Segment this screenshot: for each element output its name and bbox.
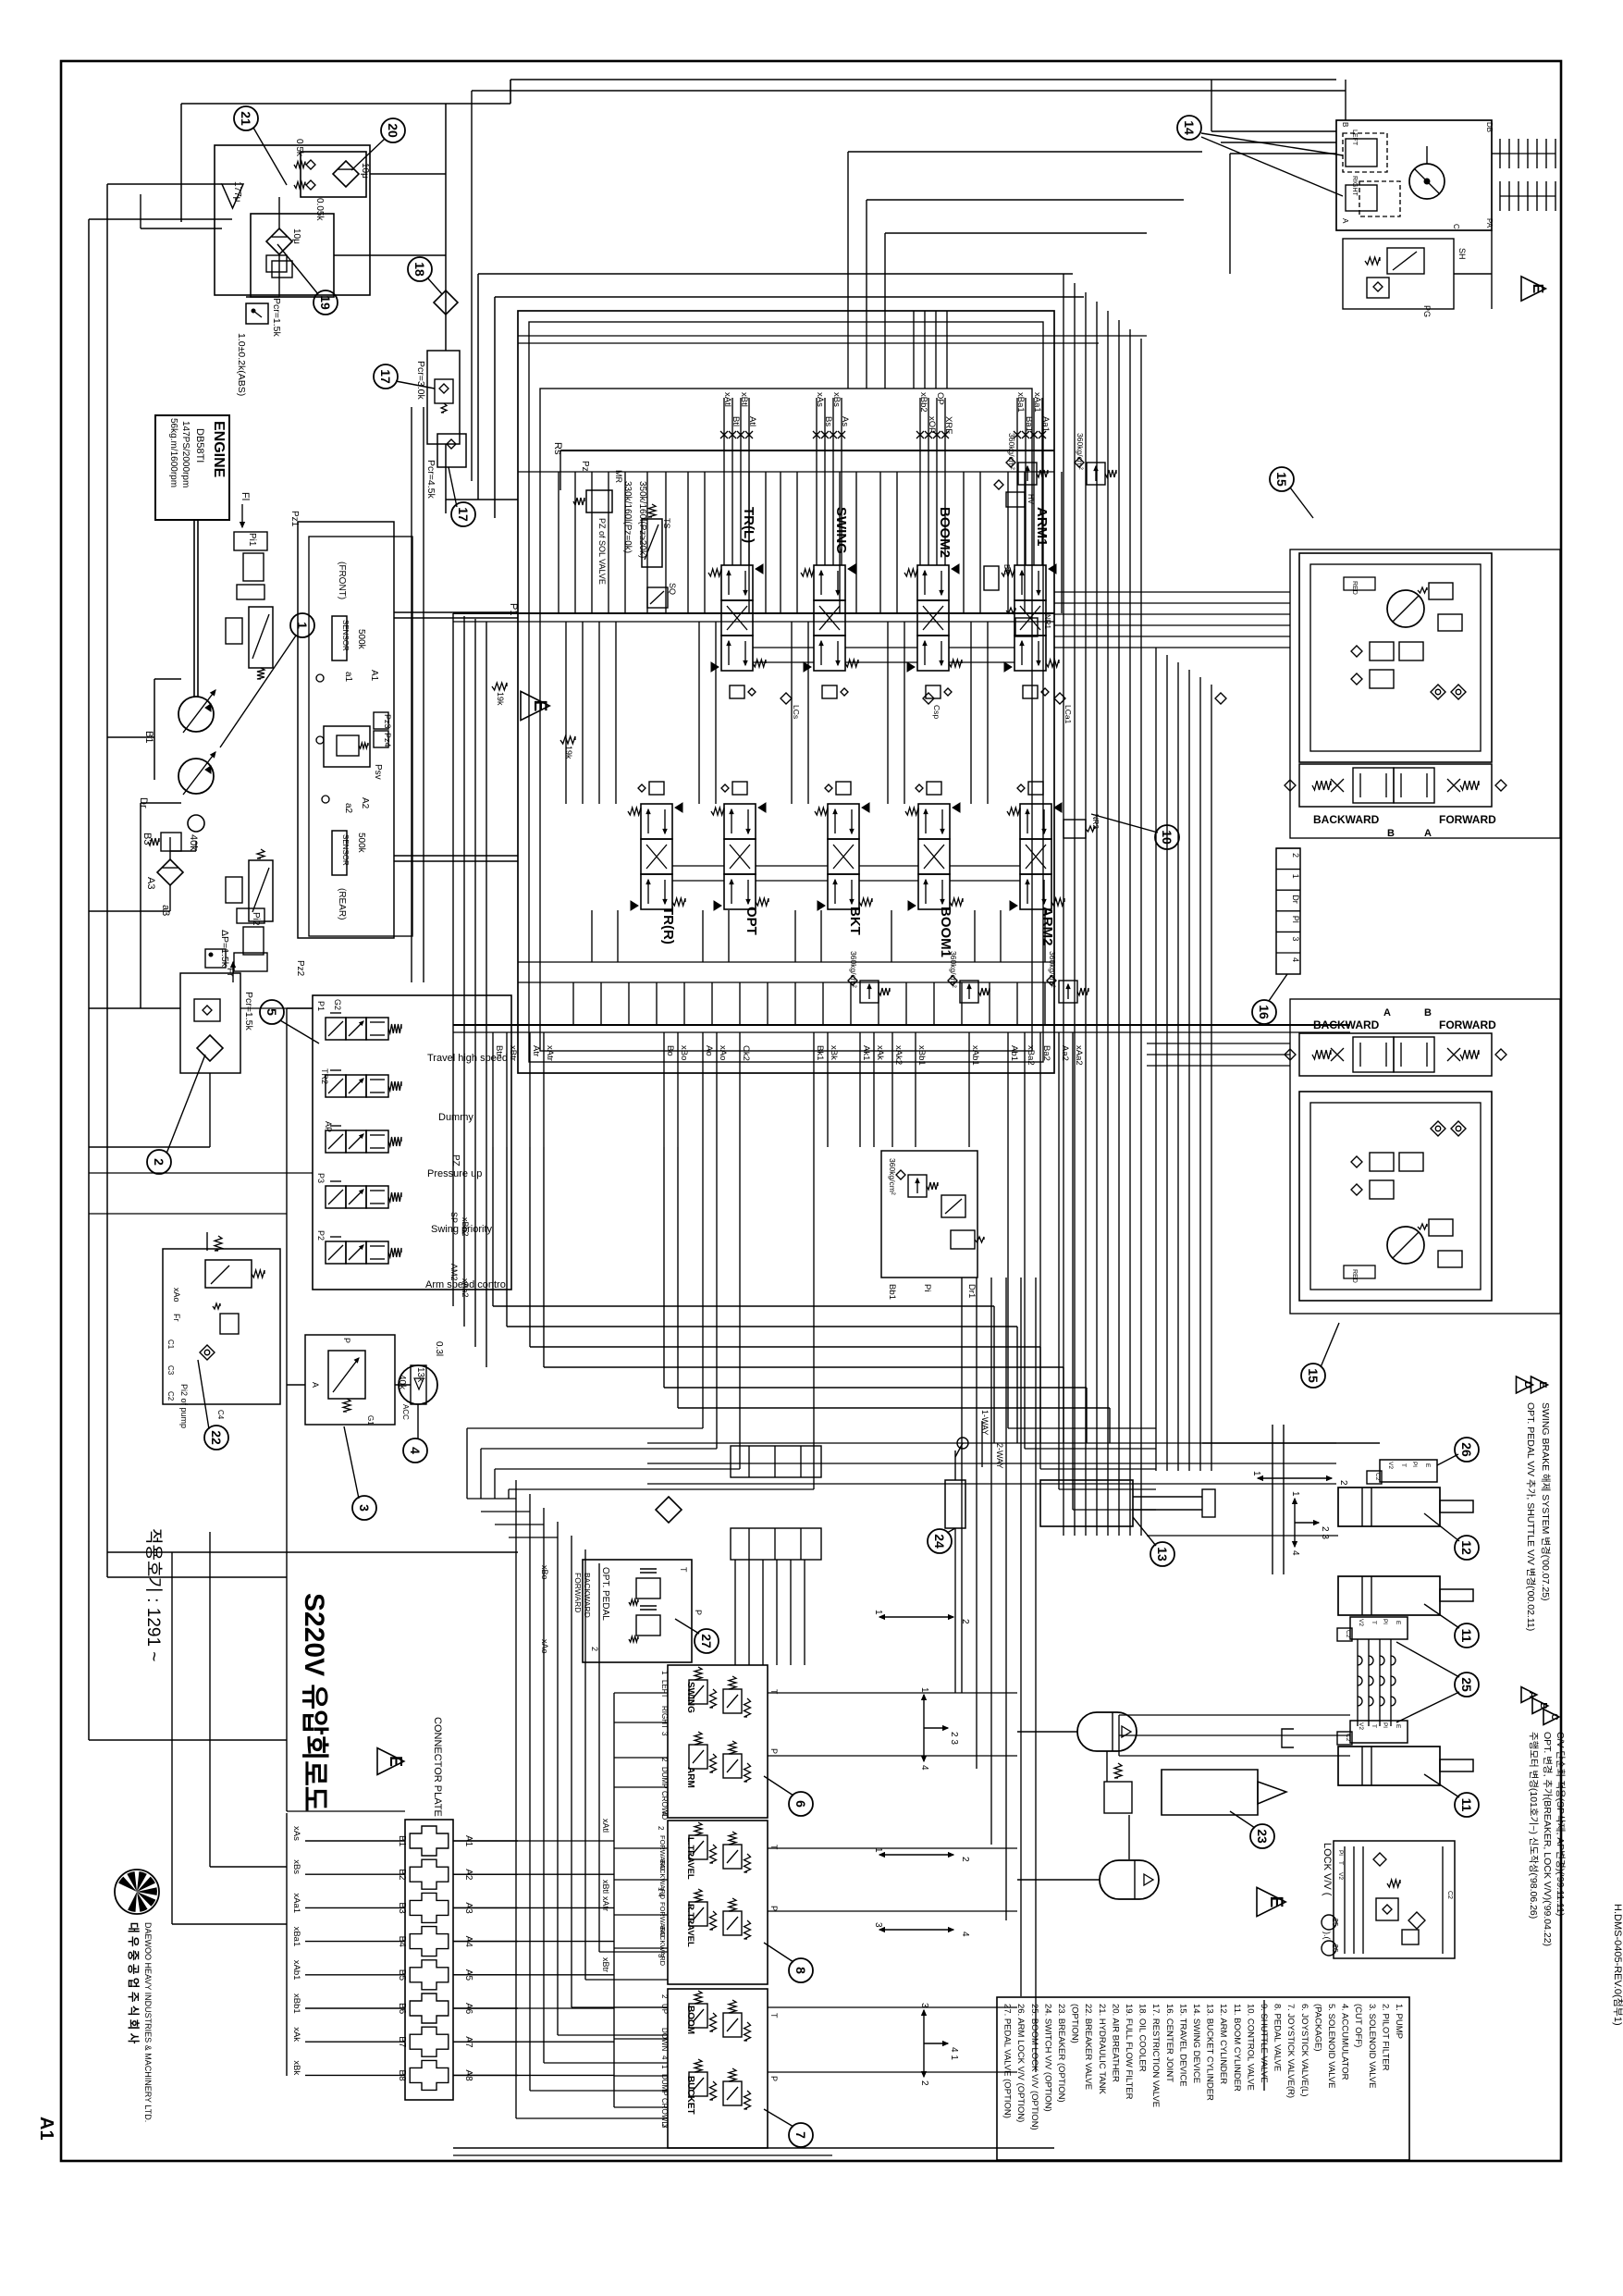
svg-text:UP: UP — [660, 2004, 669, 2014]
svg-text:V2: V2 — [1387, 1462, 1394, 1469]
svg-text:V2: V2 — [1358, 1619, 1364, 1626]
svg-text:T: T — [1337, 1861, 1344, 1865]
svg-text:xAb1: xAb1 — [970, 1045, 980, 1066]
svg-text:Ba1: Ba1 — [1024, 416, 1034, 432]
svg-text:DB58TI: DB58TI — [194, 428, 205, 463]
svg-text:2: 2 — [1291, 853, 1300, 858]
svg-text:C1: C1 — [166, 1339, 175, 1350]
svg-text:A: A — [1383, 1007, 1391, 1018]
svg-text:15: 15 — [1274, 472, 1289, 487]
svg-text:25: 25 — [1459, 1677, 1474, 1692]
svg-text:a2: a2 — [343, 803, 353, 814]
svg-text:2: 2 — [960, 1857, 970, 1862]
svg-text:TR2: TR2 — [320, 1068, 329, 1084]
svg-text:xAtl: xAtl — [601, 1819, 610, 1833]
svg-text:DAEWOO HEAVY INDUSTRIES & MACH: DAEWOO HEAVY INDUSTRIES & MACHINERY LTD. — [143, 1922, 153, 2122]
svg-text:xAtr: xAtr — [601, 1896, 610, 1911]
svg-text:xAtl: xAtl — [722, 392, 732, 407]
svg-text:대 우 중 공 업 주 식 회 사: 대 우 중 공 업 주 식 회 사 — [127, 1922, 141, 2044]
svg-text:xBtl: xBtl — [601, 1880, 610, 1894]
svg-text:S220V 유압회로도: S220V 유압회로도 — [299, 1593, 329, 1811]
svg-text:a3: a3 — [160, 905, 171, 916]
svg-text:Pl: Pl — [1382, 1619, 1388, 1624]
svg-text:4: 4 — [1291, 957, 1300, 962]
svg-text:P1: P1 — [508, 603, 519, 615]
svg-text:17: 17 — [378, 369, 393, 384]
svg-text:26: 26 — [1331, 1944, 1339, 1953]
svg-text:).(: ).( — [1322, 1932, 1332, 1940]
svg-text:Psv: Psv — [373, 764, 383, 780]
svg-text:xBb2: xBb2 — [918, 392, 928, 413]
svg-text:BACKWARD: BACKWARD — [1313, 1018, 1380, 1031]
svg-text:B: B — [1424, 1007, 1432, 1018]
svg-text:LEFT: LEFT — [660, 1680, 669, 1698]
svg-text:SENSOR: SENSOR — [341, 620, 350, 651]
svg-text:Bb1: Bb1 — [887, 1284, 897, 1300]
svg-text:360kg/cm²: 360kg/cm² — [888, 1158, 897, 1195]
svg-text:G1: G1 — [366, 1415, 375, 1426]
svg-text:C2: C2 — [1446, 1891, 1453, 1899]
svg-text:1: 1 — [660, 1671, 669, 1675]
svg-text:40k: 40k — [397, 1375, 407, 1390]
svg-text:6. JOYSTICK VALVE(L): 6. JOYSTICK VALVE(L) — [1299, 2004, 1309, 2096]
svg-text:Ab1: Ab1 — [1009, 1045, 1019, 1061]
svg-text:E: E — [1530, 284, 1545, 294]
svg-text:26. ARM LOCK V/V (OPTION): 26. ARM LOCK V/V (OPTION) — [1015, 2004, 1026, 2122]
svg-text:16: 16 — [1257, 1005, 1272, 1019]
svg-text:V2: V2 — [1358, 1722, 1364, 1730]
svg-text:14: 14 — [1182, 120, 1197, 135]
svg-text:SENSOR: SENSOR — [341, 834, 350, 866]
svg-text:21: 21 — [239, 111, 253, 126]
svg-text:xAk: xAk — [291, 2027, 301, 2042]
svg-text:1: 1 — [873, 1847, 883, 1853]
svg-text:8: 8 — [793, 1967, 808, 1974]
svg-text:xBtl: xBtl — [739, 392, 749, 407]
svg-text:4 1: 4 1 — [949, 2047, 959, 2060]
svg-text:20. AIR BREATHER: 20. AIR BREATHER — [1110, 2004, 1120, 2082]
svg-text:Btl: Btl — [731, 416, 741, 426]
svg-text:3: 3 — [1291, 936, 1300, 941]
svg-text:xAo: xAo — [540, 1639, 549, 1654]
svg-text:SH: SH — [1457, 248, 1467, 260]
svg-text:PZ of SOL VALVE: PZ of SOL VALVE — [597, 518, 607, 585]
svg-text:147PS/2000rpm: 147PS/2000rpm — [180, 421, 191, 488]
svg-text:22. BREAKER VALVE: 22. BREAKER VALVE — [1083, 2004, 1093, 2090]
svg-text:40k: 40k — [188, 834, 199, 851]
svg-text:ΔP=1.5k: ΔP=1.5k — [219, 930, 230, 968]
svg-text:B: B — [1341, 122, 1349, 127]
svg-text:A3: A3 — [145, 877, 156, 889]
svg-text:PZ: PZ — [450, 1154, 461, 1167]
svg-text:360kg/cm²: 360kg/cm² — [949, 951, 958, 988]
svg-text:DB: DB — [1485, 122, 1494, 132]
svg-text:2: 2 — [660, 1994, 669, 1999]
svg-text:1: 1 — [657, 1887, 665, 1892]
svg-text:MR: MR — [614, 470, 623, 483]
svg-text:C: C — [1452, 224, 1460, 229]
svg-text:1: 1 — [873, 1610, 883, 1615]
svg-text:16. CENTER JOINT: 16. CENTER JOINT — [1164, 2004, 1174, 2082]
svg-text:26: 26 — [1459, 1442, 1474, 1457]
svg-text:7. JOYSTICK VALVE(R): 7. JOYSTICK VALVE(R) — [1285, 2004, 1296, 2098]
svg-text:2: 2 — [960, 1619, 970, 1624]
svg-text:HV: HV — [1027, 494, 1035, 505]
svg-text:xAs: xAs — [291, 1826, 301, 1841]
svg-text:Pl: Pl — [1382, 1722, 1388, 1728]
svg-text:(CUT OFF): (CUT OFF) — [1353, 2004, 1363, 2047]
svg-text:25. BOOM LOCK V/V (OPTION): 25. BOOM LOCK V/V (OPTION) — [1029, 2004, 1039, 2130]
svg-text:4: 4 — [660, 2055, 669, 2060]
svg-text:G2: G2 — [333, 999, 342, 1010]
svg-text:BACKWARD: BACKWARD — [1313, 813, 1380, 826]
svg-text:xBk: xBk — [291, 2060, 301, 2075]
svg-text:Pz3: Pz3 — [383, 714, 392, 729]
svg-text:xAo: xAo — [718, 1045, 728, 1060]
svg-text:Pressure up: Pressure up — [427, 1168, 482, 1179]
svg-text:E: E — [530, 700, 549, 712]
svg-text:Atl: Atl — [747, 416, 757, 426]
svg-text:Csp: Csp — [932, 705, 941, 719]
svg-text:25: 25 — [1331, 1919, 1339, 1927]
svg-text:11. BOOM CYLINDER: 11. BOOM CYLINDER — [1232, 2004, 1242, 2092]
svg-text:177μ: 177μ — [232, 181, 242, 203]
svg-text:0.05k: 0.05k — [314, 198, 325, 221]
svg-text:11: 11 — [1459, 1629, 1474, 1643]
svg-text:C3: C3 — [166, 1365, 175, 1376]
svg-text:P1: P1 — [316, 1001, 326, 1011]
svg-text:360kg/cm²: 360kg/cm² — [1076, 433, 1085, 470]
svg-text:PA: PA — [1485, 218, 1494, 228]
svg-text:E: E — [1537, 1381, 1548, 1388]
svg-text:Bo: Bo — [665, 1045, 675, 1056]
svg-text:5: 5 — [264, 1008, 279, 1016]
svg-text:Pi2 of pump: Pi2 of pump — [179, 1384, 189, 1428]
svg-text:TS: TS — [662, 518, 671, 529]
svg-text:LEFT: LEFT — [1351, 130, 1358, 146]
svg-text:AP: AP — [324, 1121, 333, 1132]
svg-text:12: 12 — [1459, 1540, 1474, 1555]
svg-text:BACKWARD: BACKWARD — [658, 1926, 667, 1967]
svg-text:A: A — [1424, 828, 1432, 839]
svg-text:xBtr: xBtr — [508, 1045, 518, 1061]
svg-text:RED: RED — [1351, 581, 1358, 595]
svg-text:3: 3 — [660, 1732, 669, 1736]
svg-text:ACC: ACC — [401, 1404, 410, 1420]
svg-text:(OPTION): (OPTION) — [1070, 2004, 1080, 2043]
svg-text:xBk: xBk — [829, 1045, 839, 1060]
svg-text:14. SWING DEVICE: 14. SWING DEVICE — [1191, 2004, 1201, 2083]
svg-text:2: 2 — [660, 1758, 669, 1762]
svg-text:23. BREAKER (OPTION): 23. BREAKER (OPTION) — [1056, 2004, 1066, 2103]
svg-text:2-WAY: 2-WAY — [995, 1443, 1004, 1469]
svg-text:As: As — [840, 416, 850, 426]
svg-text:330k/160l(Pz=0k): 330k/160l(Pz=0k) — [622, 481, 633, 553]
svg-text:Ba2: Ba2 — [1041, 1045, 1051, 1061]
svg-text:3: 3 — [873, 1922, 883, 1928]
svg-text:SP: SP — [449, 1212, 459, 1223]
svg-text:xAa1: xAa1 — [291, 1893, 301, 1913]
svg-text:4: 4 — [960, 1932, 970, 1937]
svg-text:A2: A2 — [360, 797, 370, 809]
svg-text:23: 23 — [1255, 1829, 1270, 1844]
svg-text:4: 4 — [919, 1765, 929, 1771]
svg-text:LOCK V/V (: LOCK V/V ( — [1322, 1843, 1333, 1896]
svg-text:500k: 500k — [356, 629, 366, 650]
svg-text:RIGHT: RIGHT — [1351, 176, 1358, 197]
svg-text:Pcr=3.0k: Pcr=3.0k — [415, 361, 426, 400]
svg-text:A1: A1 — [36, 2117, 56, 2141]
svg-text:xAa2: xAa2 — [461, 1278, 470, 1298]
svg-text:E: E — [387, 1756, 405, 1767]
svg-text:6: 6 — [793, 1800, 808, 1808]
svg-text:Pz: Pz — [580, 461, 590, 472]
svg-text:AM2: AM2 — [449, 1264, 459, 1281]
svg-text:FORWARD: FORWARD — [1439, 813, 1496, 826]
svg-text:Pl: Pl — [1337, 1850, 1344, 1856]
svg-text:NR1: NR1 — [1043, 614, 1051, 630]
svg-text:1: 1 — [660, 2065, 669, 2069]
svg-text:E: E — [1395, 1724, 1401, 1729]
svg-text:3. SOLENOID VALVE: 3. SOLENOID VALVE — [1367, 2004, 1377, 2089]
svg-text:2: 2 — [1338, 1480, 1348, 1486]
svg-text:Dr: Dr — [1291, 895, 1300, 904]
svg-text:T: T — [769, 1845, 779, 1850]
svg-text:19. FULL FLOW FILTER: 19. FULL FLOW FILTER — [1124, 2004, 1134, 2100]
svg-text:Dr1: Dr1 — [966, 1284, 977, 1298]
svg-text:Aa2: Aa2 — [1060, 1045, 1070, 1061]
svg-text:BKT: BKT — [847, 907, 863, 935]
svg-text:DUMP: DUMP — [660, 2074, 669, 2096]
svg-text:T: T — [769, 1689, 779, 1695]
svg-text:5. SOLENOID VALVE: 5. SOLENOID VALVE — [1326, 2004, 1336, 2089]
svg-text:A: A — [311, 1382, 320, 1388]
svg-text:xBb2: xBb2 — [461, 1217, 470, 1237]
svg-text:27. PEDAL VALVE (OPTION): 27. PEDAL VALVE (OPTION) — [1002, 2004, 1013, 2118]
svg-text:적용호기 : 1291 ~: 적용호기 : 1291 ~ — [143, 1528, 164, 1661]
svg-text:OPT. 변경, 추가(BREAKER, LOCK V/V): OPT. 변경, 추가(BREAKER, LOCK V/V)('99.04.22… — [1542, 1732, 1554, 1946]
svg-text:2. PILOT FILTER: 2. PILOT FILTER — [1380, 2004, 1390, 2071]
svg-text:xAa1: xAa1 — [1032, 392, 1042, 413]
svg-text:ENGINE: ENGINE — [211, 421, 227, 478]
svg-text:L.TRAVEL: L.TRAVEL — [685, 1837, 695, 1880]
svg-text:11: 11 — [1459, 1798, 1474, 1812]
svg-text:C2: C2 — [1345, 1630, 1351, 1638]
svg-text:15. TRAVEL DEVICE: 15. TRAVEL DEVICE — [1177, 2004, 1187, 2087]
svg-text:V2: V2 — [1337, 1872, 1344, 1880]
svg-text:xBa1: xBa1 — [1015, 392, 1026, 413]
svg-text:A: A — [1341, 218, 1349, 224]
svg-text:T: T — [679, 1567, 688, 1573]
svg-text:CROWD: CROWD — [660, 2098, 669, 2127]
svg-text:xBo: xBo — [540, 1565, 549, 1580]
svg-text:4: 4 — [660, 1811, 669, 1816]
svg-text:DOWN: DOWN — [660, 2028, 669, 2052]
svg-text:SQ: SQ — [668, 583, 677, 595]
svg-text:P2: P2 — [316, 1230, 326, 1241]
svg-text:T: T — [1371, 1621, 1377, 1624]
svg-text:P: P — [342, 1338, 351, 1343]
svg-text:주행모터 변경(101호기~) 신도작성('98.06.26: 주행모터 변경(101호기~) 신도작성('98.06.26) — [1528, 1732, 1540, 1919]
svg-text:19: 19 — [318, 295, 333, 310]
svg-text:21. HYDRAULIC TANK: 21. HYDRAULIC TANK — [1097, 2004, 1107, 2095]
svg-text:PG: PG — [1422, 305, 1432, 317]
svg-text:Pcr=4.5k: Pcr=4.5k — [425, 460, 436, 499]
svg-text:(FRONT): (FRONT) — [337, 562, 347, 599]
svg-text:RIGHT: RIGHT — [660, 1706, 669, 1729]
svg-text:xAk2: xAk2 — [893, 1045, 904, 1065]
svg-text:DUMP: DUMP — [660, 1767, 669, 1789]
svg-text:SWING: SWING — [685, 1682, 695, 1713]
svg-text:BOOM1: BOOM1 — [938, 907, 953, 957]
svg-text:Pcr=1.5k: Pcr=1.5k — [271, 298, 282, 337]
svg-text:xBa2: xBa2 — [1026, 1045, 1036, 1066]
svg-text:xBs: xBs — [831, 392, 842, 407]
svg-text:1: 1 — [1290, 1491, 1300, 1497]
svg-text:B: B — [1387, 828, 1395, 839]
svg-text:4. ACCUMULATOR: 4. ACCUMULATOR — [1340, 2004, 1350, 2080]
svg-text:13: 13 — [1155, 1547, 1170, 1562]
svg-text:Pl: Pl — [1291, 916, 1300, 923]
svg-text:CONNECTOR PLATE: CONNECTOR PLATE — [432, 1717, 443, 1817]
svg-text:Bk1: Bk1 — [815, 1045, 825, 1060]
svg-text:C2: C2 — [1345, 1734, 1351, 1742]
svg-text:18: 18 — [412, 262, 427, 277]
svg-text:T: T — [1371, 1724, 1377, 1728]
svg-text:OPT: OPT — [744, 907, 759, 935]
svg-text:TR(R): TR(R) — [660, 907, 676, 944]
svg-text:13k: 13k — [415, 1367, 425, 1383]
svg-text:Dummy: Dummy — [438, 1112, 473, 1123]
svg-text:15: 15 — [1306, 1368, 1321, 1383]
svg-text:BUCKET: BUCKET — [685, 2076, 695, 2115]
svg-text:LCs: LCs — [792, 705, 801, 719]
svg-text:xAb1: xAb1 — [291, 1960, 301, 1981]
svg-text:2: 2 — [657, 1826, 665, 1831]
svg-text:Btr: Btr — [494, 1045, 504, 1056]
svg-text:24. SWITCH V/V (OPTION): 24. SWITCH V/V (OPTION) — [1042, 2004, 1052, 2112]
svg-text:xBb1: xBb1 — [291, 1994, 301, 2014]
svg-text:Ck2: Ck2 — [741, 1045, 751, 1061]
svg-text:Pz2: Pz2 — [295, 960, 305, 977]
svg-text:Pi1: Pi1 — [247, 533, 257, 547]
svg-text:1: 1 — [1291, 874, 1300, 879]
svg-text:360kg/cm²: 360kg/cm² — [1048, 951, 1057, 988]
svg-text:3: 3 — [357, 1504, 372, 1512]
svg-text:2 3: 2 3 — [1320, 1526, 1330, 1539]
svg-text:T: T — [1400, 1463, 1407, 1467]
svg-text:19k: 19k — [496, 692, 505, 706]
svg-text:C2: C2 — [166, 1391, 175, 1401]
svg-text:ARM2: ARM2 — [1039, 907, 1055, 946]
svg-text:360kg/cm²: 360kg/cm² — [1007, 433, 1016, 470]
svg-text:10μ: 10μ — [360, 163, 370, 179]
svg-text:Pi: Pi — [922, 1284, 932, 1291]
svg-text:Atr: Atr — [531, 1045, 541, 1056]
svg-text:27: 27 — [699, 1634, 714, 1648]
svg-text:xBtr: xBtr — [601, 1957, 610, 1972]
svg-text:P: P — [769, 1906, 779, 1911]
svg-text:xAo: xAo — [172, 1288, 181, 1302]
svg-text:R.TRAVEL: R.TRAVEL — [685, 1904, 695, 1947]
svg-text:xBo: xBo — [679, 1045, 689, 1060]
svg-text:2: 2 — [919, 2080, 929, 2086]
svg-text:2 3: 2 3 — [949, 1732, 959, 1745]
svg-text:Aa1: Aa1 — [1040, 416, 1051, 432]
svg-text:7: 7 — [793, 2131, 808, 2139]
svg-text:1. PUMP: 1. PUMP — [1394, 2004, 1404, 2039]
svg-text:Pz4: Pz4 — [383, 733, 392, 747]
svg-text:LCa1: LCa1 — [1064, 705, 1073, 724]
svg-text:22: 22 — [209, 1430, 224, 1445]
svg-text:Bs: Bs — [823, 416, 833, 426]
svg-text:0.3l: 0.3l — [434, 1341, 444, 1356]
svg-text:P: P — [769, 2076, 779, 2081]
svg-text:2: 2 — [152, 1158, 166, 1166]
svg-text:E: E — [1395, 1621, 1401, 1625]
svg-text:4: 4 — [657, 1893, 665, 1897]
svg-text:C2: C2 — [1374, 1473, 1381, 1481]
svg-text:C4: C4 — [216, 1410, 225, 1420]
svg-text:10. CONTROL VALVE: 10. CONTROL VALVE — [1245, 2004, 1255, 2091]
svg-text:13. BUCKET CYLINDER: 13. BUCKET CYLINDER — [1205, 2004, 1215, 2101]
svg-text:3: 3 — [660, 2124, 669, 2129]
svg-text:xBa1: xBa1 — [291, 1927, 301, 1947]
svg-text:17. RESTRICTION VALVE: 17. RESTRICTION VALVE — [1150, 2004, 1161, 2107]
svg-text:1: 1 — [919, 1687, 929, 1693]
svg-text:24: 24 — [932, 1534, 947, 1549]
svg-text:BC: BC — [1002, 564, 1011, 574]
svg-text:T: T — [769, 2013, 779, 2018]
svg-text:OPT. PEDAL: OPT. PEDAL — [600, 1567, 610, 1621]
svg-text:(PACKAGE): (PACKAGE) — [1312, 2004, 1322, 2052]
svg-text:12. ARM CYLINDER: 12. ARM CYLINDER — [1218, 2004, 1228, 2084]
svg-text:Pl: Pl — [1411, 1462, 1418, 1467]
svg-text:350k/160l(Pz≥20k): 350k/160l(Pz≥20k) — [637, 481, 647, 558]
svg-text:xBb1: xBb1 — [916, 1045, 927, 1066]
svg-text:E: E — [1266, 1896, 1285, 1908]
svg-text:C: C — [1549, 1713, 1559, 1720]
svg-text:8. PEDAL VALVE: 8. PEDAL VALVE — [1273, 2004, 1283, 2071]
svg-text:BACKWARD: BACKWARD — [583, 1573, 592, 1618]
svg-text:P: P — [769, 1748, 779, 1754]
svg-text:Ao: Ao — [704, 1045, 714, 1056]
svg-text:4: 4 — [1290, 1550, 1300, 1556]
svg-text:H.DMS-0405-REV.0(첨부1): H.DMS-0405-REV.0(첨부1) — [1612, 1904, 1623, 2026]
svg-text:CROWD: CROWD — [660, 1791, 669, 1820]
svg-text:A1: A1 — [369, 670, 379, 682]
svg-text:C/V 단순화 적용(SP삭제, AP변경)('99.11.: C/V 단순화 적용(SP삭제, AP변경)('99.11.11) — [1555, 1732, 1567, 1916]
svg-text:OPT. PEDAL V/V 추가, SHUTTLE V/V: OPT. PEDAL V/V 추가, SHUTTLE V/V 변경('00.02… — [1525, 1402, 1537, 1631]
svg-text:Fl: Fl — [240, 492, 251, 500]
svg-text:1: 1 — [1251, 1471, 1261, 1476]
svg-text:xAk: xAk — [875, 1045, 885, 1060]
svg-text:ARM: ARM — [685, 1767, 695, 1788]
svg-text:a1: a1 — [343, 672, 353, 683]
svg-text:Fr: Fr — [172, 1314, 181, 1322]
svg-text:FORWARD: FORWARD — [1439, 1018, 1496, 1031]
svg-text:FORWARD: FORWARD — [573, 1573, 583, 1612]
svg-text:Ak1: Ak1 — [861, 1045, 871, 1060]
svg-text:3: 3 — [919, 2003, 929, 2008]
svg-text:17: 17 — [456, 507, 471, 522]
svg-text:1.0±0.2k(ABS): 1.0±0.2k(ABS) — [236, 333, 247, 396]
svg-text:(REAR): (REAR) — [337, 888, 347, 920]
svg-text:4: 4 — [408, 1447, 423, 1454]
svg-text:10μ: 10μ — [291, 228, 301, 244]
svg-text:18. OIL COOLER: 18. OIL COOLER — [1137, 2004, 1148, 2072]
svg-text:2: 2 — [590, 1647, 599, 1651]
